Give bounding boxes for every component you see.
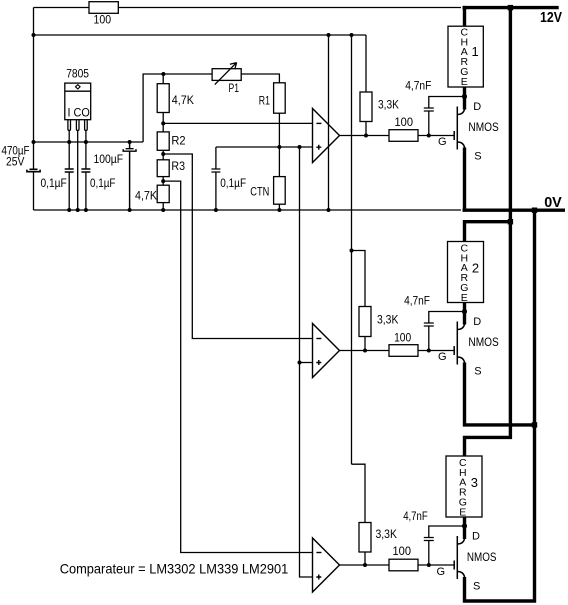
wire left vertical V+ — [33, 8, 35, 211]
wire 12V to CHARGE1 — [463, 6, 466, 26]
resistor R1 — [274, 83, 286, 113]
svg-text:2: 2 — [472, 260, 479, 275]
node rail x328 — [327, 208, 331, 212]
wire 3,3K 3 bottom — [364, 552, 366, 565]
wire jog to 3,3K 2 — [352, 251, 366, 307]
wire P1 to R1 — [241, 74, 279, 83]
node drain 3 cap — [462, 523, 467, 528]
wire vertical V+ to 0V x328 — [328, 35, 330, 210]
node C — [161, 179, 165, 183]
node 0V C — [532, 208, 537, 213]
capacitor 470uF 25V — [27, 169, 40, 171]
svg-text:7805: 7805 — [66, 67, 89, 81]
load CHARGE 3 box — [446, 456, 482, 517]
resistor 4,7K (top) — [157, 84, 169, 113]
wire node C to comparator 3 minus — [163, 181, 312, 552]
wire node B segment — [162, 150, 164, 160]
node 3,3K3 output — [363, 563, 367, 567]
wire rail to 3,3K 1 — [365, 35, 367, 92]
node rail pin I — [67, 208, 71, 212]
capacitor 100uF — [123, 142, 136, 210]
wire 3,3K 2 bottom — [364, 337, 366, 351]
capacitor 0,1uF (output) — [81, 169, 90, 172]
wire top rail right segment — [118, 7, 461, 9]
resistor 100 (gate 2) — [389, 345, 418, 357]
svg-text:G: G — [438, 136, 447, 148]
wire Q1 source to 0V — [463, 148, 466, 211]
wire Q3 source to 0V return C vertical — [465, 210, 535, 601]
wire y142 — [34, 141, 144, 143]
node drain 1 cap — [462, 94, 467, 99]
wire node A segment — [162, 113, 164, 132]
svg-text:100: 100 — [394, 330, 411, 344]
node rail35 x328 — [327, 33, 331, 37]
load CHARGE 1 text — [460, 26, 479, 88]
svg-text:0,1µF: 0,1µF — [41, 176, 67, 190]
wire 3,3K 1 bottom — [365, 122, 367, 136]
resistor 100 (gate 1) — [389, 130, 418, 142]
wire B to CHARGE2 — [465, 222, 511, 242]
wire 5V to divider — [162, 74, 164, 84]
regulator U1 7805 — [65, 83, 91, 120]
node pin I y142 — [67, 140, 71, 144]
pin C of 7805 — [76, 120, 79, 210]
pin O of 7805 — [85, 120, 88, 210]
wire bottom rail 0V thin — [34, 209, 462, 211]
wire rail y35 — [34, 34, 367, 36]
svg-text:S: S — [474, 366, 481, 378]
node A — [161, 121, 165, 125]
svg-text:4,7nF: 4,7nF — [404, 294, 430, 308]
svg-text:3,3K: 3,3K — [377, 312, 398, 326]
svg-text:25V: 25V — [6, 155, 24, 169]
op-amp comparator U1c — [313, 538, 340, 592]
wire plus net comp2 stub — [300, 362, 313, 364]
svg-text:E: E — [459, 507, 466, 519]
12V rail thick — [463, 6, 559, 9]
wire node A to comparator 1 minus — [163, 122, 312, 124]
svg-text:G: G — [438, 351, 447, 363]
svg-text:0V: 0V — [544, 194, 562, 211]
node plus net tap — [298, 145, 302, 149]
resistor 100 (gate 3) — [389, 559, 418, 571]
transistor Q2 NMOS — [454, 322, 464, 365]
node rail 100uF — [128, 208, 132, 212]
svg-text:D: D — [473, 316, 481, 328]
wire Q2 source to 0V net — [465, 363, 535, 425]
svg-text:4,7K: 4,7K — [172, 93, 194, 107]
node rail 0,1uF CTN — [214, 208, 218, 212]
load CHARGE 1 box — [448, 26, 483, 87]
node plus comp2 — [298, 361, 302, 365]
wire pullup feed x351 — [351, 35, 353, 464]
node 12V B — [508, 5, 513, 10]
node gate 3 — [427, 563, 431, 567]
node 100uF top — [128, 140, 132, 144]
node 3,3K2 output — [363, 349, 367, 353]
svg-text:D: D — [472, 531, 480, 543]
capacitor 4,7nF (3) — [424, 526, 465, 565]
resistor 3,3K (3) — [359, 523, 371, 553]
potentiometer P1 — [212, 63, 241, 85]
wire node C segment — [162, 177, 164, 186]
svg-text:S: S — [474, 151, 481, 163]
wire CHARGE1 to Q1 drain — [463, 87, 466, 110]
svg-text:CTN: CTN — [250, 184, 269, 198]
capacitor 4,7nF (2) — [424, 312, 465, 351]
svg-text:R2: R2 — [171, 133, 185, 147]
wire top rail left segment — [34, 7, 90, 9]
node drain 2 cap — [462, 309, 467, 314]
capacitor 4,7nF (1) — [424, 97, 465, 136]
svg-text:4,7nF: 4,7nF — [405, 78, 431, 92]
svg-text:1: 1 — [471, 44, 478, 59]
wire CHARGE3 to Q3 drain — [463, 517, 466, 539]
load CHARGE 2 text — [460, 242, 479, 304]
svg-text:3,3K: 3,3K — [376, 527, 397, 541]
svg-text:100µF: 100µF — [94, 152, 124, 166]
node B — [161, 152, 165, 156]
svg-text:NMOS: NMOS — [468, 120, 498, 134]
wire node B to comparator 2 minus — [163, 154, 312, 339]
node C source2 — [532, 422, 537, 427]
svg-text:3: 3 — [471, 475, 478, 490]
node B charge2 — [508, 219, 513, 224]
wire plus net vertical — [300, 147, 313, 577]
transistor Q3 NMOS — [454, 536, 464, 579]
svg-text:D: D — [473, 101, 481, 113]
node rail35 left — [32, 33, 36, 37]
0V rail thick — [463, 208, 566, 211]
node x351 jog2 — [350, 249, 354, 253]
node pin O y142 — [84, 140, 88, 144]
svg-text:100: 100 — [395, 115, 414, 129]
load CHARGE 2 box — [448, 242, 484, 303]
wire 12V branch B vertical with CHARGE3 feed — [465, 6, 511, 456]
wire comp3 output — [340, 564, 455, 566]
op-amp comparator U1b — [313, 324, 340, 378]
load CHARGE 3 text — [459, 457, 478, 519]
node rail CTN — [277, 208, 281, 212]
svg-text:100: 100 — [94, 13, 112, 27]
wire divider bottom — [162, 203, 164, 210]
node rail divider — [161, 208, 165, 212]
wire CHARGE2 to Q2 drain — [463, 303, 466, 325]
svg-text:E: E — [461, 292, 468, 304]
wire R1 to CTN — [278, 113, 280, 176]
node 3,3K1 output — [364, 134, 368, 138]
wire jog to 3,3K 3 — [352, 464, 366, 522]
node rail pin C — [76, 208, 80, 212]
wire CTN to rail — [278, 204, 280, 210]
node rail pin O — [84, 208, 88, 212]
wire comp2 output — [340, 350, 455, 352]
svg-text:12V: 12V — [540, 9, 562, 26]
svg-text:R1: R1 — [259, 94, 270, 108]
node gate 1 — [427, 134, 431, 138]
node R1 CTN plus — [277, 145, 281, 149]
svg-text:NMOS: NMOS — [467, 550, 497, 564]
resistor 4,7K (bottom) — [157, 185, 169, 202]
svg-text:3,3K: 3,3K — [378, 97, 399, 111]
svg-text:0,1µF: 0,1µF — [90, 176, 115, 190]
resistor 3,3K (1) — [360, 92, 372, 122]
op-amp comparator U1a — [313, 109, 340, 163]
svg-text:I CO: I CO — [68, 106, 90, 120]
thermistor CTN — [274, 177, 286, 205]
node 5V rail divider — [161, 72, 165, 76]
capacitor 0,1uF (CTN) — [211, 147, 220, 210]
wire comp1 output — [340, 135, 455, 137]
svg-text:R3: R3 — [171, 159, 185, 173]
svg-text:NMOS: NMOS — [468, 335, 498, 349]
svg-text:4,7nF: 4,7nF — [403, 509, 428, 523]
wire plus net horizontal — [216, 146, 313, 148]
svg-text:G: G — [437, 566, 446, 578]
resistor 100 (top filter) — [89, 2, 118, 14]
node rail35 x351 — [350, 33, 354, 37]
resistor R3 — [157, 160, 169, 177]
resistor R2 — [157, 132, 169, 150]
node y142 left — [32, 140, 36, 144]
resistor 3,3K (2) — [359, 307, 371, 337]
svg-text:S: S — [473, 581, 480, 593]
svg-text:100: 100 — [393, 544, 412, 558]
transistor Q1 NMOS — [454, 107, 464, 150]
wire riser to 5V rail — [143, 74, 212, 142]
capacitor 0,1uF (input) — [65, 169, 74, 172]
pin I of 7805 — [68, 120, 71, 210]
node gate 2 — [427, 349, 431, 353]
svg-text:4,7K: 4,7K — [135, 188, 157, 202]
svg-text:0,1µF: 0,1µF — [220, 176, 246, 190]
svg-text:E: E — [461, 76, 468, 88]
svg-text:P1: P1 — [229, 81, 240, 95]
svg-text:Comparateur = LM3302 LM339 LM2: Comparateur = LM3302 LM339 LM2901 — [60, 561, 289, 577]
